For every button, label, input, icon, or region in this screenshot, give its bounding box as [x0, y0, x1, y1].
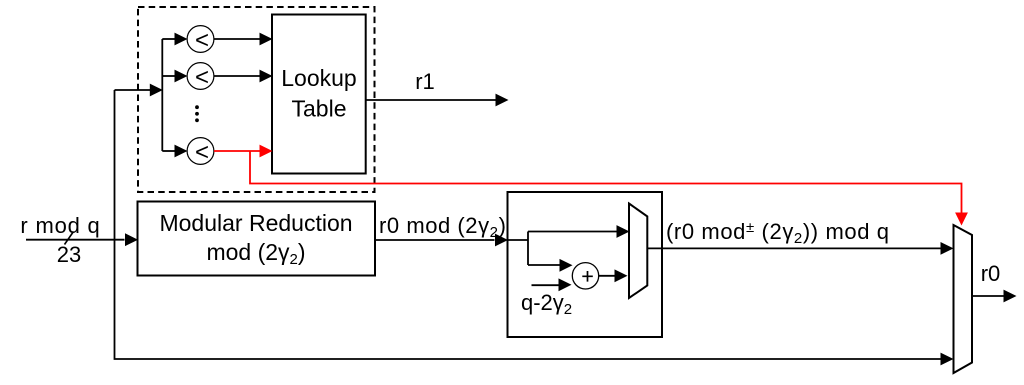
wire: lower branch into adder	[528, 259, 573, 272]
adder U6	[572, 263, 598, 289]
svg-text:Table: Table	[292, 96, 347, 122]
dashed comparator-bank enclosure	[138, 7, 375, 192]
wire: U3 output to lookup table (red)	[214, 145, 273, 158]
inner mux M1	[629, 204, 647, 299]
wire: r1 output	[366, 94, 509, 107]
wire: branch to comparator U2	[162, 70, 187, 83]
svg-text:r mod q: r mod q	[20, 213, 100, 238]
wire: U2 output to lookup table	[214, 70, 273, 83]
svg-text:Modular Reduction: Modular Reduction	[159, 210, 352, 236]
wire: modular reduction output	[375, 234, 508, 247]
wire: r0 output	[972, 290, 1017, 303]
comparator U1	[187, 26, 214, 54]
wire: conditional-add output to output mux	[647, 242, 953, 255]
bus width slash	[65, 232, 74, 245]
wire: input r mod q	[26, 233, 138, 246]
comparator U3	[187, 138, 214, 166]
svg-text:<: <	[195, 64, 209, 91]
wire: q-2gamma2 input into adder	[532, 278, 572, 291]
svg-text:<: <	[195, 27, 209, 54]
wire: upper branch to inner mux	[528, 225, 630, 238]
svg-text:(r0 mod± (2γ2)) mod q: (r0 mod± (2γ2)) mod q	[666, 219, 890, 247]
wire: branch to comparator U3	[162, 145, 187, 158]
comparator U2	[187, 63, 214, 91]
svg-text:23: 23	[57, 242, 81, 267]
svg-text:<: <	[195, 139, 209, 166]
output mux M2	[954, 225, 973, 373]
ellipsis dots between comparators	[195, 105, 199, 122]
wire: branch to comparator U1	[162, 33, 187, 46]
wire: left feedback trunk (input down to bottom bus)	[115, 90, 954, 365]
wire: into splitter node	[508, 232, 529, 266]
modular reduction block U5	[138, 202, 376, 276]
conditional-add block enclosure	[508, 192, 663, 337]
svg-text:Lookup: Lookup	[281, 65, 356, 91]
lookup table U4	[272, 15, 366, 174]
wire: comparator branch vertical	[161, 39, 163, 151]
svg-text:r0 mod (2γ2): r0 mod (2γ2)	[379, 213, 506, 241]
svg-text:r1: r1	[415, 69, 435, 94]
wire: trunk top into comparator branch	[115, 84, 163, 97]
wire: adder output to inner mux	[599, 269, 628, 282]
wire: red feedback to output mux select	[250, 151, 968, 226]
wire: U1 output to lookup table	[214, 33, 273, 46]
svg-text:r0: r0	[981, 261, 1001, 286]
